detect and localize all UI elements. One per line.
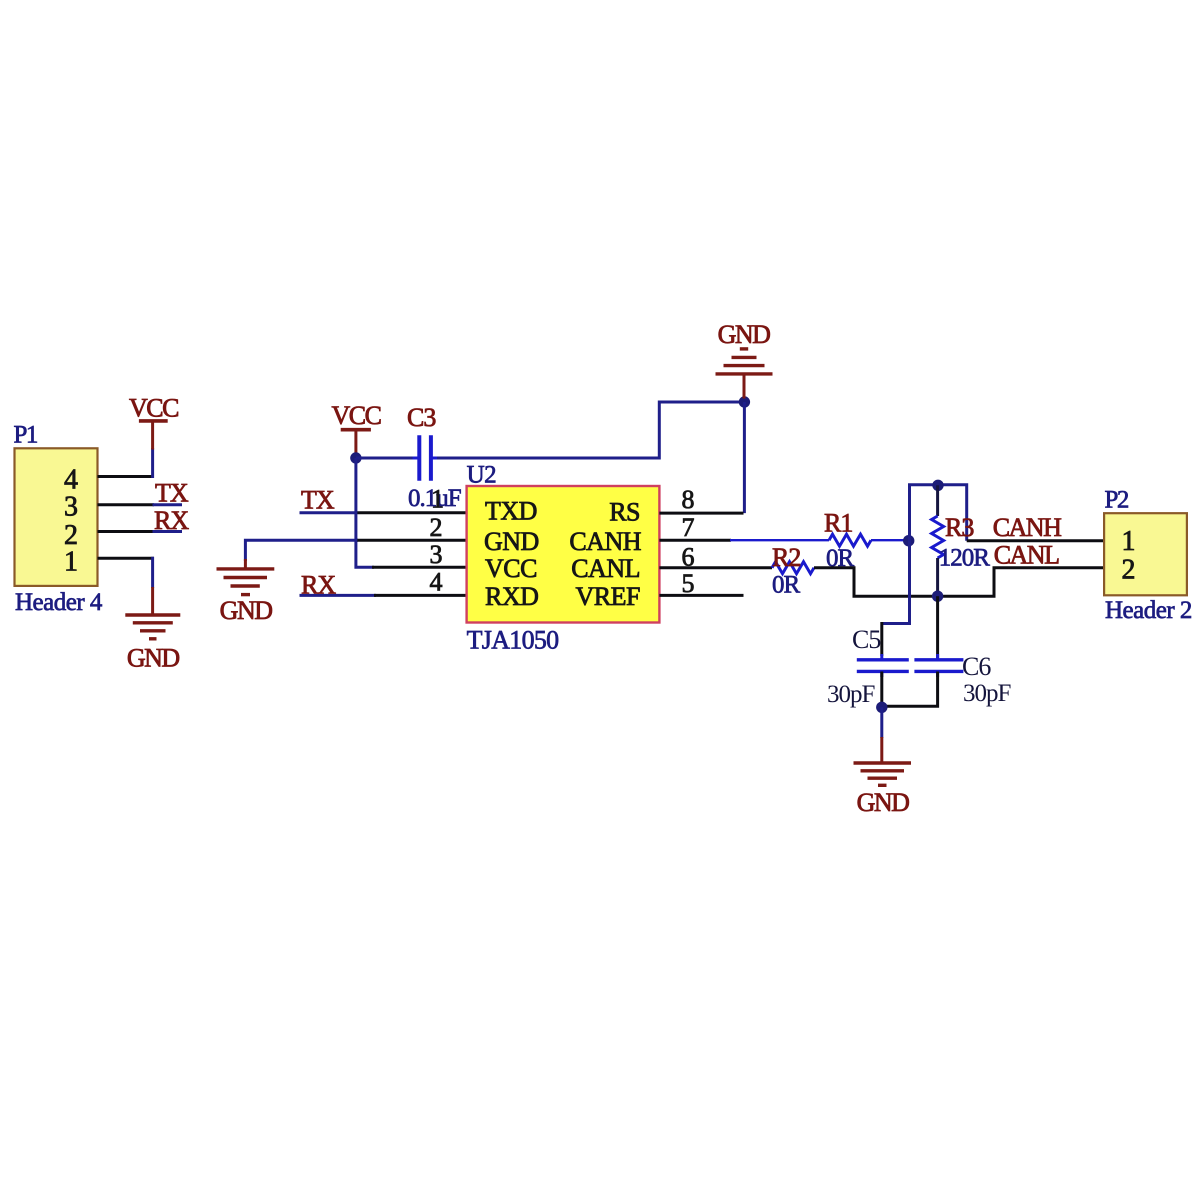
svg-text:TJA1050: TJA1050	[467, 626, 560, 655]
resistor R3	[932, 485, 944, 593]
wire P1 pin4 stub	[98, 475, 155, 478]
junction CANH node	[903, 535, 914, 546]
U2 pin number 1 (overlapping)	[431, 485, 444, 514]
svg-text:8: 8	[682, 485, 695, 514]
wire P1 pin2 stub	[98, 530, 155, 533]
svg-text:TX: TX	[155, 478, 189, 507]
C6 designator	[962, 652, 991, 681]
svg-text:GND: GND	[220, 596, 273, 625]
svg-text:4: 4	[430, 568, 443, 597]
R3 value 120R	[939, 544, 991, 571]
svg-text:Header 4: Header 4	[15, 589, 103, 616]
svg-text:1: 1	[431, 485, 444, 514]
svg-text:P1: P1	[14, 421, 37, 448]
P1 value Header 4	[15, 589, 103, 616]
U2 designator	[467, 462, 497, 489]
wire U2 CANL run	[659, 566, 772, 569]
svg-text:30pF: 30pF	[827, 681, 875, 708]
wire VCC drop to U2 pin3	[356, 458, 467, 567]
wire VCC riser P1	[151, 448, 154, 478]
svg-text:VCC: VCC	[129, 394, 178, 423]
svg-text:CANL: CANL	[994, 541, 1059, 570]
C5 designator	[852, 625, 880, 654]
wire U2 TXD stub	[356, 511, 467, 514]
resistor R1	[730, 534, 905, 546]
R1 designator	[824, 509, 852, 538]
wire C6 feed	[936, 596, 939, 658]
svg-text:VCC: VCC	[485, 554, 537, 583]
resistor R2	[772, 562, 814, 574]
P1 pin numbers 4 3 2 1	[64, 465, 78, 578]
wire GND drop P1	[151, 557, 154, 588]
C6 value 30pF	[963, 680, 1011, 707]
wire CANH bypass loop	[910, 485, 967, 541]
net label RX (U2)	[300, 571, 377, 600]
wire U2 RS stub	[659, 512, 743, 515]
R3 designator	[945, 513, 973, 542]
wire C5 feed	[882, 541, 910, 656]
wire C5 bottom	[880, 672, 883, 708]
svg-text:120R: 120R	[939, 544, 991, 571]
ground GND (P1)	[125, 587, 180, 672]
wire U2 RXD stub	[374, 594, 467, 597]
svg-text:RS: RS	[609, 498, 640, 527]
svg-text:RX: RX	[301, 571, 336, 600]
svg-text:CANH: CANH	[993, 513, 1062, 542]
svg-text:CANH: CANH	[569, 527, 641, 556]
R2 value 0R	[772, 572, 801, 599]
svg-text:VCC: VCC	[332, 401, 381, 430]
svg-text:2: 2	[1122, 554, 1136, 585]
U2 value TJA1050	[467, 626, 560, 655]
svg-text:Header 2: Header 2	[1105, 597, 1192, 624]
svg-text:C5: C5	[852, 625, 880, 654]
ground GND (top inverted)	[716, 320, 773, 399]
power VCC (U2)	[332, 401, 381, 453]
capacitor C6	[914, 654, 963, 677]
svg-text:1: 1	[1122, 526, 1136, 557]
svg-text:0R: 0R	[772, 572, 801, 599]
svg-text:TXD: TXD	[485, 497, 537, 526]
P2 pin numbers 1 2	[1122, 526, 1136, 585]
svg-text:C3: C3	[407, 403, 435, 432]
U2 right pin numbers 8 7 6 5	[682, 485, 695, 598]
R2 designator	[772, 543, 800, 572]
U2 left pin numbers 2 3 4	[430, 513, 443, 597]
net label TX (P1)	[153, 478, 189, 507]
P2 value Header 2	[1105, 597, 1192, 624]
net label RX (P1)	[153, 506, 190, 535]
svg-text:30pF: 30pF	[963, 680, 1011, 707]
capacitor C5	[857, 654, 909, 677]
svg-text:TX: TX	[301, 486, 335, 515]
svg-text:R2: R2	[772, 543, 800, 572]
svg-text:1: 1	[64, 547, 78, 578]
svg-text:3: 3	[64, 492, 78, 523]
ground GND (mid)	[217, 559, 275, 625]
IC U2 body	[467, 486, 660, 623]
wire C3 to top GND	[437, 402, 744, 458]
net label CANH	[993, 513, 1062, 542]
svg-text:GND: GND	[718, 320, 771, 349]
svg-text:RXD: RXD	[485, 582, 538, 611]
svg-text:GND: GND	[857, 788, 910, 817]
svg-text:C6: C6	[962, 652, 991, 681]
net label TX (U2)	[300, 486, 358, 515]
svg-text:RX: RX	[154, 506, 189, 535]
capacitor C3	[413, 435, 439, 480]
svg-text:P2: P2	[1105, 487, 1129, 514]
P2 designator	[1105, 487, 1129, 514]
wire P1 pin1 stub	[98, 557, 155, 560]
svg-text:GND: GND	[484, 527, 539, 556]
svg-text:5: 5	[682, 569, 695, 598]
R1 value 0R	[826, 545, 855, 572]
wire C6 bottom	[882, 672, 938, 707]
ground GND (bottom)	[854, 707, 912, 817]
C3 designator	[407, 403, 435, 432]
svg-text:7: 7	[682, 513, 695, 542]
svg-text:CANL: CANL	[571, 554, 640, 583]
svg-text:2: 2	[430, 513, 443, 542]
junction VCC node	[350, 452, 361, 463]
power VCC (P1)	[129, 394, 178, 450]
net label CANL	[994, 541, 1059, 570]
wire P1 pin3 stub	[98, 503, 155, 506]
wire U2 VREF stub	[659, 594, 743, 597]
svg-text:U2: U2	[467, 462, 497, 489]
svg-text:VREF: VREF	[576, 582, 641, 611]
svg-text:GND: GND	[127, 643, 180, 672]
svg-text:3: 3	[430, 540, 443, 569]
svg-text:R1: R1	[824, 509, 852, 538]
junction R3 bottom node	[932, 591, 943, 602]
wire RS riser	[743, 402, 746, 513]
wire CANL jog	[814, 568, 1104, 597]
C5 value 30pF	[827, 681, 875, 708]
wire U2 GND pin row	[245, 540, 466, 561]
U2 pin names	[484, 497, 642, 612]
wire CANH to P2	[967, 539, 1104, 542]
connector P2 body	[1104, 513, 1187, 595]
wire U2 CANH run	[659, 539, 731, 542]
junction C5 C6 bottom node	[876, 702, 887, 713]
junction top GND node	[739, 396, 750, 407]
svg-text:R3: R3	[945, 513, 973, 542]
C3 value 0.1uF	[408, 485, 461, 512]
junction R3 top node	[932, 480, 943, 491]
connector P1 body	[15, 448, 98, 586]
P1 designator	[14, 421, 37, 448]
wire VCC junction to C3	[356, 457, 414, 460]
